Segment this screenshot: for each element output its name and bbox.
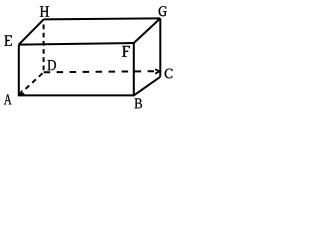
wire edge EH (left top depth diagonal) bbox=[19, 19, 44, 44]
node A label bbox=[4, 94, 12, 104]
wire edge AE (left front vertical) bbox=[18, 45, 20, 96]
node G label bbox=[159, 6, 167, 16]
wire edge AB (bottom front) bbox=[18, 94, 135, 96]
wire edge DC hidden (dashed, arrowhead at C) bbox=[44, 71, 155, 72]
node B label bbox=[134, 98, 141, 108]
node H label bbox=[40, 6, 49, 17]
wire edge HD hidden (dashed vertical) bbox=[43, 25, 45, 73]
wire edge FG (right top depth diagonal) bbox=[134, 18, 161, 43]
node F label bbox=[122, 46, 130, 57]
node E label bbox=[4, 35, 12, 45]
wire edge GC (right back vertical) bbox=[159, 18, 161, 76]
wire edge EF (top front) bbox=[19, 43, 134, 45]
wire edge HG (top back) bbox=[44, 18, 161, 19]
wire edge DA hidden (dashed, arrowhead at A) bbox=[24, 73, 43, 90]
node C label bbox=[165, 69, 173, 79]
wire edge BF (right front vertical) bbox=[133, 43, 135, 95]
node D label bbox=[47, 60, 55, 70]
wire edge BC (right bottom depth diagonal) bbox=[134, 77, 161, 96]
